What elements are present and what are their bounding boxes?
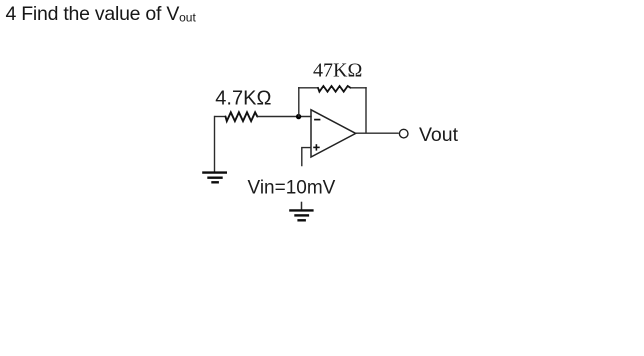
label 47KΩ (value of feedback resistor) [313,59,362,81]
wire: feedback top left segment [298,87,318,89]
resistor 47KΩ (zigzag) [318,86,350,92]
label 4.7KΩ (value of input resistor) [215,87,271,109]
wire: non-inverting input bend (left then down to Vin) [302,148,312,167]
ground (Vin source, earth symbol) [289,210,313,220]
label Vin=10mV (input source value) [248,178,336,199]
title: 4 Find the value of Vout [6,3,197,25]
op-amp inverting input symbol (minus) [314,119,320,121]
node: inverting input junction (filled dot) [296,114,301,119]
svg-text:47KΩ: 47KΩ [313,59,362,81]
label Vout [419,124,459,146]
wire: input horizontal left segment [215,116,227,118]
wire: feedback left vertical (node up) [298,87,300,117]
terminal Vout (open circle) [399,129,408,138]
resistor 4.7KΩ (zigzag) [226,112,258,121]
op-amp non-inverting input symbol (plus) [313,144,320,150]
wire: op-amp output [356,132,399,134]
op-amp U1 (triangle) [311,110,356,157]
svg-text:Vin=10mV: Vin=10mV [248,178,336,199]
ground (left, earth symbol) [202,173,227,183]
svg-text:4 Find the value of Vout: 4 Find the value of Vout [6,3,197,25]
wire: left vertical down to ground [214,116,216,172]
wire: feedback top right segment [350,87,366,89]
svg-text:Vout: Vout [419,124,459,146]
wire: input horizontal right segment to op-amp inverting input [257,116,311,118]
wire: Vin ground stub [301,202,303,211]
svg-text:4.7KΩ: 4.7KΩ [215,87,271,109]
wire: feedback right vertical (down to output) [365,87,367,133]
